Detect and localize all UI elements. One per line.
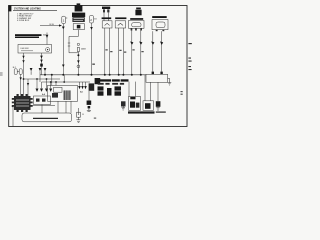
arrow on wire x152.8 (151, 41, 154, 45)
wire J2 down to bus (91, 23, 93, 75)
arrow left mid (30, 68, 33, 71)
arrow on B-Y wire (20, 77, 22, 80)
wires down to bottom boxes (128, 82, 130, 97)
connector C1 bar with pins (102, 7, 110, 9)
fuse on main center wire (77, 43, 79, 45)
fusible link FL MAIN (dark icon) (75, 3, 83, 11)
title underline (13, 9, 57, 11)
small box with A marks (34, 96, 51, 105)
LH wires down (131, 31, 133, 75)
dark block pair 3 (115, 86, 122, 90)
wires from C1 down (103, 12, 105, 20)
relay hatch (64, 90, 71, 100)
dark block pair 1 (98, 86, 104, 90)
box under battery block (73, 24, 84, 30)
arrow on wire x161.6 (160, 41, 163, 45)
edge smudge left margin (0, 72, 3, 76)
wire J1 down to bus (62, 24, 64, 75)
arrow pair left mid 2 (39, 68, 42, 71)
headlight relay icon (dark) (135, 8, 141, 16)
b2 wires down (118, 28, 120, 75)
bottom label bar under boxes (128, 111, 155, 113)
ticks on left wire (22, 56, 24, 59)
svg-text:IGN SW: IGN SW (21, 48, 30, 50)
page border frame (9, 6, 187, 127)
connector tabs on top of dimmer box (152, 72, 154, 75)
dimmer switch box right (146, 74, 168, 82)
RH wires down (152, 31, 154, 71)
small marks near border right (181, 91, 183, 95)
wire to junction block from bus A (27, 79, 29, 96)
fuse b2 label bar (115, 17, 126, 19)
wires relay to bottom box (57, 101, 59, 113)
connector pair B-Y (14, 69, 22, 75)
main bus wire (40, 74, 146, 76)
second bus B (42, 81, 91, 83)
J1 pin tick (66, 17, 68, 19)
dashed wire left of J1 with label B-W (40, 25, 61, 27)
bottom relay box 2 (129, 97, 141, 111)
fuse b1 label bar (102, 17, 112, 19)
bottom relay box 3 (143, 101, 154, 111)
relay contact marks (52, 93, 58, 98)
LH pins (131, 28, 133, 30)
wire with arrow at x47 (46, 33, 48, 45)
wire center down to bus (77, 52, 79, 75)
wire down from box (77, 30, 79, 37)
right margin text marks (188, 43, 191, 70)
components on right wire (40, 56, 43, 59)
daytime running light resistor (dark) (95, 78, 101, 84)
ecu comp right with ground (156, 101, 161, 107)
relay box bottom left (48, 85, 78, 101)
junction connector J1 (62, 16, 66, 23)
drops to arrow row (36, 79, 38, 88)
bottom wide box (22, 113, 72, 122)
bottom box text (33, 117, 58, 119)
fuse box b2 (115, 21, 125, 28)
arrow row of four (36, 89, 39, 92)
comp below resistor (89, 83, 95, 90)
module label bar (100, 79, 129, 81)
bus junction dots (44, 74, 142, 76)
battery / fuse block (dark with white text) (72, 13, 85, 17)
arrow below J1 (62, 27, 65, 30)
fuse box b1 (102, 21, 112, 28)
tick label on J2 wire (92, 64, 95, 65)
combination meter (dark junction block) (12, 94, 33, 112)
arrow on wire x131.8 (130, 41, 133, 45)
headlight LH unit box (129, 21, 145, 29)
svg-text:4 FUSE BOX: 4 FUSE BOX (17, 20, 30, 22)
wire from meter right to box (33, 104, 55, 106)
bulb with ground bottom mid (78, 108, 80, 115)
b1 wires down (104, 28, 106, 75)
junction connector J2 (90, 15, 94, 23)
headlight LH label bar (130, 18, 143, 20)
corner index mark (8, 5, 11, 11)
svg-text:AM2: AM2 (81, 48, 86, 51)
arrow on center wire (77, 60, 80, 63)
lamp circle in box (46, 48, 50, 52)
svg-text:SYSTEM AND LIGHTING: SYSTEM AND LIGHTING (14, 6, 41, 10)
ticks on loop (68, 42, 70, 44)
wire down from comp (88, 91, 90, 101)
wire from B-Y down (20, 74, 22, 96)
ignition switch box (18, 45, 52, 54)
sensor with ground mid bottom (121, 101, 126, 106)
headlight RH label bar (152, 16, 167, 18)
loop wire branch (69, 36, 78, 52)
tick mark right of bulb (94, 118, 96, 119)
dark block 2 (107, 88, 112, 96)
RH pins (156, 30, 158, 32)
arrow on wire x140.8 (139, 41, 142, 45)
inner box (54, 87, 63, 92)
headlight RH unit box (152, 20, 168, 30)
connector circle on center wire (77, 65, 80, 68)
wire color tick labels on riser wires (105, 49, 143, 52)
ground at dimmer box (168, 78, 172, 85)
wire from box right down (41, 53, 43, 75)
svg-text:1J: 1J (82, 114, 84, 116)
legend text block (17, 12, 34, 22)
wire meter down to border (12, 107, 14, 127)
second bus A (24, 78, 61, 80)
arrow on J1 wire lower (62, 65, 65, 68)
left header text bar (15, 34, 42, 38)
wire from box left down (23, 53, 25, 96)
diode comp with ground x88 (87, 101, 92, 109)
arrows under bus mid (79, 82, 81, 86)
module label row 2 (98, 83, 124, 85)
junction dot on center wire (77, 54, 79, 56)
